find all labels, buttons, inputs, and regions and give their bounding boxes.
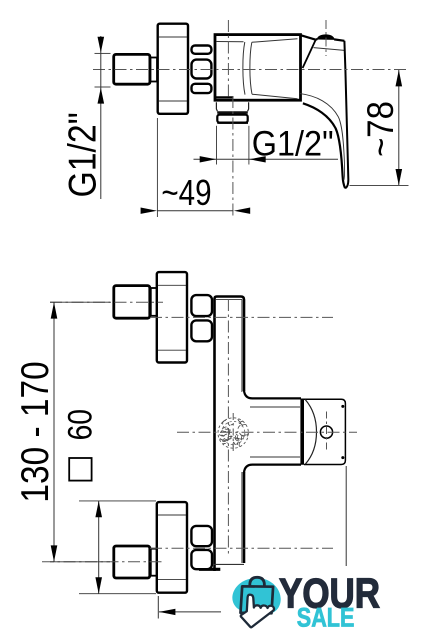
svg-text:G1/2": G1/2" — [62, 112, 105, 197]
body top inner line — [217, 41, 244, 43]
knurl pattern — [218, 418, 248, 448]
flange chamfer line bottom — [159, 100, 187, 102]
top flange chamfer top — [158, 284, 186, 286]
top hex facet 2 — [191, 320, 212, 341]
centerline horizontal main axis — [93, 69, 409, 71]
top connector step — [151, 288, 157, 316]
bar inner line top — [216, 298, 242, 300]
dim G1/2 outlet: arrow right — [200, 156, 216, 162]
dim G1/2 outlet: extension line left — [216, 126, 218, 165]
centerline handle horizontal — [177, 431, 357, 433]
dim ~49: dimension line — [157, 210, 233, 212]
arm thin line bottom — [250, 456, 300, 458]
hex nut top facet — [192, 46, 212, 54]
outlet collar left — [216, 102, 217, 111]
handle top edge — [316, 39, 345, 41]
svg-text:130 - 170: 130 - 170 — [14, 361, 57, 502]
dim 130-170: arrow up — [51, 302, 58, 318]
arm thin line top — [250, 406, 300, 408]
handle end block — [304, 399, 345, 464]
centerline pipe2 horizontal — [42, 561, 163, 563]
hex nut middle facet — [192, 60, 212, 79]
dim 130-170: arrow down — [51, 545, 58, 561]
outlet nut bottom edge — [217, 121, 248, 123]
bar right edge lower — [243, 472, 246, 563]
body bottom-left step line — [216, 96, 234, 98]
logo blob — [232, 578, 280, 614]
wall flange — [158, 24, 188, 114]
dim 130-170: extension top — [50, 301, 110, 303]
centerline knurl vertical — [232, 413, 234, 452]
centerline outlet axis vertical — [232, 96, 234, 217]
dim G1/2 left: extension line top — [95, 52, 111, 54]
dim bottom partial: arrow left — [159, 609, 175, 615]
bottom hex facet 2 — [191, 550, 212, 569]
wall pipe step — [151, 58, 158, 82]
cartridge dome arc inner — [250, 42, 252, 94]
dim G1/2 left: dimension line — [100, 36, 102, 199]
handle blade edge-on (thick) — [300, 399, 304, 465]
dim ~78: dimension line — [398, 70, 400, 185]
body sloping bottom line — [252, 94, 298, 99]
outlet nut top band — [217, 111, 248, 114]
bottom flange chamfer bottom — [158, 579, 186, 581]
wall pipe connector — [114, 54, 150, 84]
handle blade outer curve — [303, 103, 345, 188]
mixer body — [215, 35, 301, 101]
top flange chamfer bottom — [158, 349, 186, 351]
dim G1/2 outlet: arrow left — [249, 156, 265, 162]
handle blade inner thin curve — [300, 94, 345, 180]
dim bottom partial: line — [159, 611, 221, 613]
bar inner line right lower — [241, 472, 243, 563]
arm bottom edge with fillet — [244, 465, 301, 473]
centerline body vertical — [227, 299, 229, 556]
body sloping top line — [252, 39, 298, 43]
handle neck top edge — [301, 35, 316, 39]
handle blade side line — [345, 466, 347, 566]
dim 60: arrow down — [95, 577, 102, 593]
bar foot bottom — [199, 568, 220, 571]
bar inner line right upper — [241, 299, 243, 392]
dim 60: arrow up — [95, 501, 102, 517]
bottom hex facet 1 — [191, 526, 212, 546]
svg-text:G1/2": G1/2" — [252, 123, 334, 163]
dim ~78: arrow down — [396, 169, 403, 185]
handle neck diagonal — [303, 40, 316, 68]
svg-text:60: 60 — [62, 409, 100, 440]
logo hand — [241, 595, 274, 628]
centerline cartridge axis vertical — [227, 20, 229, 99]
handle block corner dot top — [341, 405, 344, 408]
body bar — [215, 297, 245, 572]
handle top inner thin line — [314, 48, 345, 51]
dim ~49: extension line left — [156, 118, 158, 217]
dim G1/2 outlet: dimension line — [194, 158, 339, 160]
logo bag — [241, 586, 274, 613]
dim 60: extension bottom — [79, 593, 156, 595]
top hex facet 1 — [191, 295, 212, 316]
dim bottom partial: extension — [157, 596, 159, 619]
dim ~49: arrow left (outside-right) — [234, 208, 250, 214]
hex nut bottom facet — [192, 84, 212, 93]
top connector flange — [157, 272, 187, 362]
bottom connector step — [151, 549, 157, 576]
svg-text:SALE: SALE — [297, 603, 355, 633]
svg-text:~49: ~49 — [161, 172, 211, 213]
handle block corner dot bottom — [341, 456, 344, 459]
svg-text:~78: ~78 — [359, 101, 401, 157]
dim G1/2 left: arrow down — [98, 37, 105, 53]
outlet collar right — [248, 102, 249, 111]
dim G1/2 left: extension line bottom — [95, 86, 111, 88]
bottom connector pipe — [114, 546, 150, 578]
flange chamfer line top — [159, 36, 187, 38]
dim 130-170: dimension line — [53, 302, 55, 562]
logo bag handle — [250, 577, 265, 592]
dim G1/2 left: arrow up — [98, 88, 105, 104]
dim 60: extension top — [79, 500, 156, 502]
cartridge dome arc outer — [243, 42, 245, 95]
dim 130-170: extension bottom — [50, 561, 110, 563]
dim G1/2 outlet: extension line right — [248, 126, 250, 165]
arm top edge with fillet — [244, 391, 301, 399]
handle right edge — [344, 41, 348, 188]
centerline pipe1 horizontal — [50, 301, 163, 303]
dim ~49: arrow right (outside-left) — [141, 208, 157, 214]
dim ~78: extension line bottom — [350, 184, 409, 186]
bottom flange chamfer top — [158, 514, 186, 516]
centerline screw vertical — [326, 412, 328, 453]
handle block arc — [305, 400, 316, 465]
dim 60: dimension line — [98, 501, 100, 594]
bottom connector flange — [157, 502, 187, 593]
centerline hex1 horizontal — [150, 316, 333, 318]
centerline hex2 horizontal — [150, 547, 333, 549]
handle button dome — [317, 35, 334, 40]
square drive symbol — [69, 458, 91, 481]
bar bottom thin edge — [214, 563, 245, 565]
top connector pipe — [114, 286, 150, 319]
dim ~78: arrow up — [396, 70, 403, 86]
outlet nut — [217, 115, 247, 123]
handle screw hole — [320, 426, 332, 438]
centerline handle button vertical — [325, 20, 327, 56]
